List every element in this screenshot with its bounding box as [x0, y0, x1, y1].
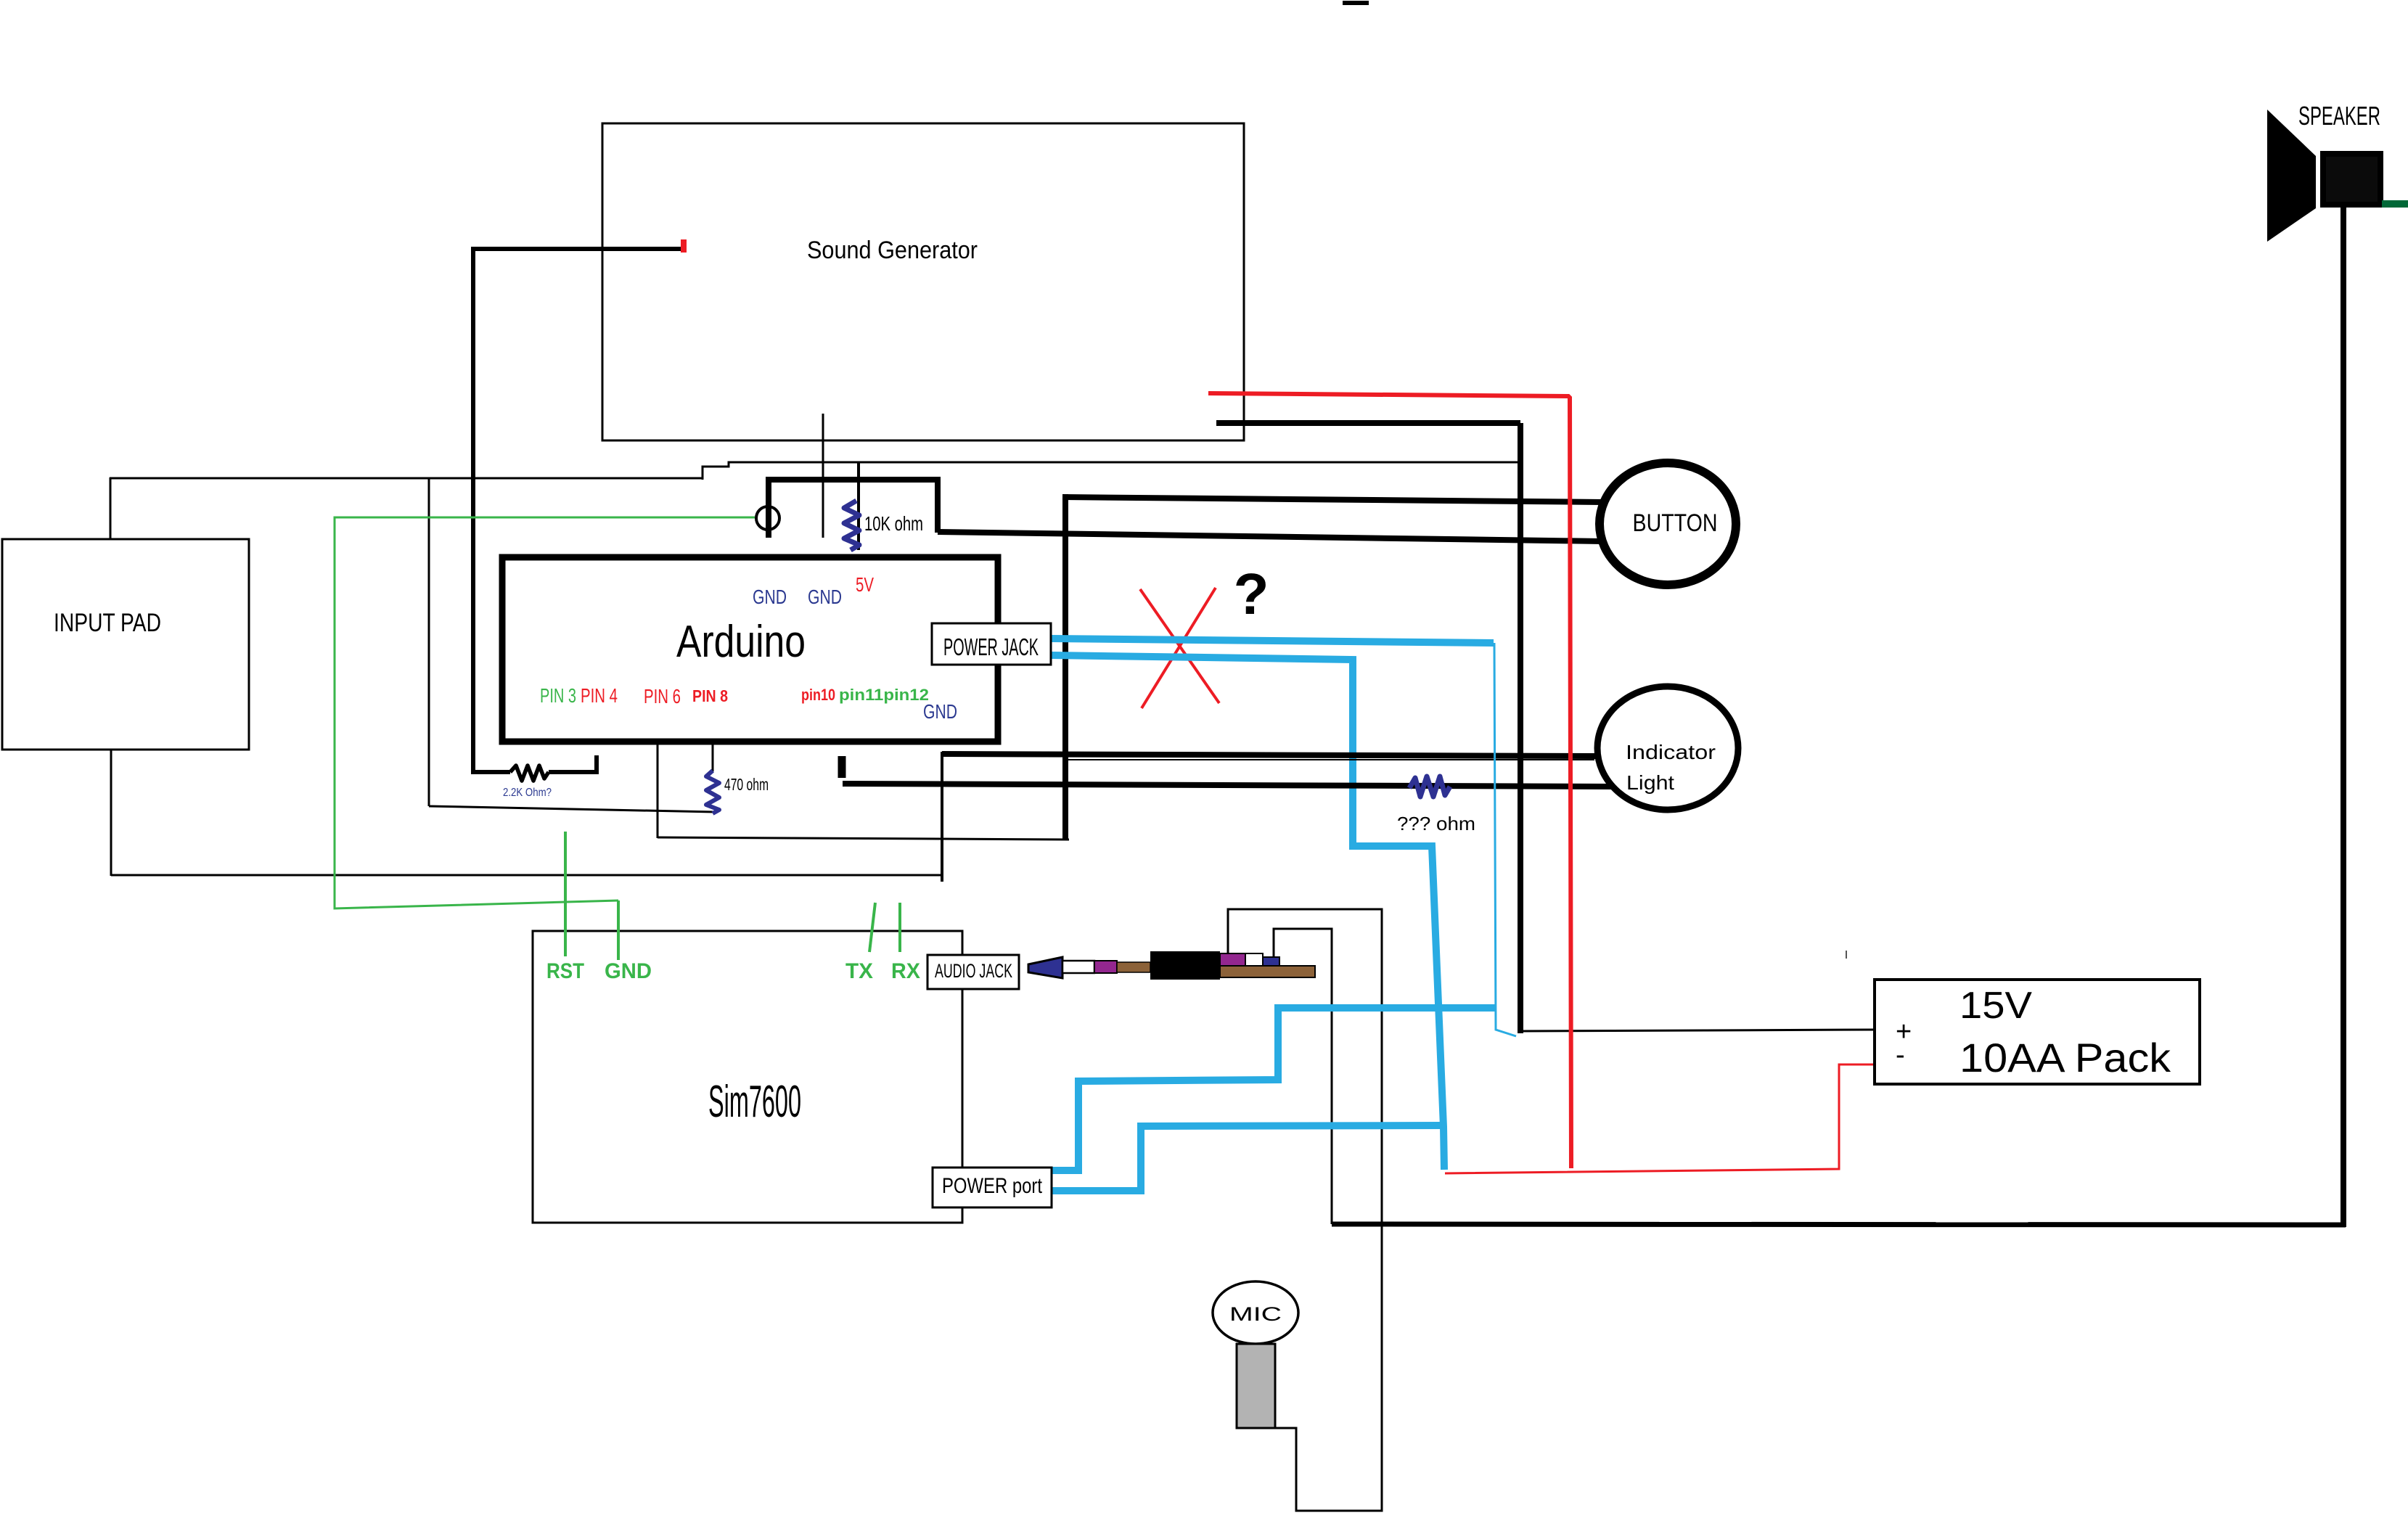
cap right drop: [935, 477, 941, 533]
audio plug: magenta segment: [1094, 961, 1117, 973]
sound generator box U1: [602, 123, 1244, 440]
red wire: 5V rail: [1208, 393, 1571, 1168]
audio plug: white segment: [1062, 961, 1094, 973]
audio plug: brown segment: [1117, 962, 1150, 972]
svg-text:GND: GND: [923, 700, 957, 723]
wire: GND stub below arduino: [838, 756, 846, 778]
green wire: GND stub: [617, 900, 620, 960]
wire: 2.2K branch right segment: [549, 770, 597, 774]
svg-text:GND: GND: [605, 959, 652, 983]
wire: pin3 drop below arduino: [657, 744, 659, 838]
audio plug: white contact: [1245, 953, 1263, 966]
wire: speaker bottom return: [1332, 1224, 2346, 1225]
svg-text:RX: RX: [891, 959, 920, 983]
svg-text:PIN 8: PIN 8: [692, 686, 728, 705]
resistor R3 470 ohm (vertical): [706, 771, 719, 813]
battery pack BT1: [1875, 980, 2200, 1084]
svg-text:POWER JACK: POWER JACK: [943, 633, 1039, 660]
svg-text:5V: 5V: [856, 573, 874, 596]
svg-text:??? ohm: ??? ohm: [1397, 813, 1475, 834]
svg-text:GND: GND: [808, 586, 842, 608]
green wire: pad sense loop: [335, 517, 755, 908]
wire: run to 470ohm resistor bottom: [429, 806, 715, 812]
power jack port box: [932, 623, 1051, 665]
svg-text:pin10: pin10: [801, 686, 835, 704]
wire: thick power top run: [1216, 420, 1520, 426]
svg-text:2.2K Ohm?: 2.2K Ohm?: [503, 787, 552, 799]
svg-text:AUDIO JACK: AUDIO JACK: [935, 960, 1012, 982]
wire: thick power rail drop x2095: [1518, 423, 1523, 1033]
svg-text:PIN 4: PIN 4: [581, 684, 618, 707]
red X mark: [1140, 589, 1219, 703]
wire: lower button feed: [938, 532, 1602, 541]
dark green speaker lead: [2382, 200, 2408, 208]
svg-text:PIN 3: PIN 3: [540, 684, 576, 707]
wire: indicator hairline: [1065, 759, 1594, 760]
resistor R2 10K (vertical): [844, 501, 859, 550]
wire: thick vertical x652: [471, 247, 475, 772]
cyan wire: power jack upper: [1052, 639, 1494, 643]
arduino board U2: [502, 557, 998, 742]
svg-text:Arduino: Arduino: [676, 617, 806, 667]
svg-text:15V: 15V: [1959, 985, 2032, 1027]
mic body (gray): [1237, 1344, 1275, 1428]
mic wire 1 (tip): [1228, 909, 1382, 1511]
microphone MIC1: [1213, 1281, 1298, 1344]
svg-text:10AA Pack: 10AA Pack: [1959, 1035, 2171, 1080]
input pad box: [2, 539, 249, 750]
wire: 470 resistor top lead: [712, 744, 714, 771]
wire: sound generator output drop: [822, 414, 824, 538]
svg-text:Sound Generator: Sound Generator: [807, 237, 978, 264]
speaker LS1 box: [2323, 154, 2380, 205]
mic wire 2 (ring to return): [1274, 929, 1332, 1224]
svg-text:SPEAKER: SPEAKER: [2298, 101, 2380, 131]
speaker LS1 horn: [2267, 110, 2316, 242]
svg-text:?: ?: [1234, 562, 1269, 626]
svg-text:RST: RST: [546, 959, 584, 983]
svg-text:pin11pin12: pin11pin12: [839, 686, 929, 704]
wire: thick box left rail: [1062, 494, 1068, 840]
power port box: [933, 1168, 1052, 1207]
green wire: TX stub: [869, 903, 875, 952]
green wire: RST stub: [564, 832, 567, 956]
wire: 10K resistor lead: [857, 462, 860, 550]
sim7600 module U3: [533, 931, 962, 1223]
button switch S1: [1600, 463, 1736, 585]
cyan wire: power port lower: [1052, 1125, 1442, 1191]
wire: 2.2K terminal up tick: [594, 755, 599, 774]
wire: junction drop at x591: [428, 478, 430, 806]
wire: input pad bottom riser: [110, 750, 112, 876]
resistor R4 ??? ohm (on lower indicator feed): [1409, 776, 1450, 797]
wire: upper button feed: [1062, 497, 1602, 502]
audio plug: black body: [1150, 951, 1220, 980]
svg-text:Indicator: Indicator: [1626, 741, 1716, 763]
resistor R1 2.2K: [510, 766, 549, 781]
audio plug: purple contact: [1220, 953, 1245, 966]
green wire: RX stub: [898, 903, 901, 952]
cyan wire: power jack lower long run: [1052, 655, 1444, 1170]
cyan wire: thin drop to battery junction: [1494, 643, 1516, 1036]
wire: lower indicator feed: [843, 784, 1612, 787]
wire: thick feed into sound generator: [471, 247, 683, 251]
svg-text:Sim7600: Sim7600: [708, 1077, 801, 1127]
node: circle junction on cap: [756, 506, 779, 530]
wire: 2.2K branch left segment: [471, 770, 510, 774]
svg-text:MIC: MIC: [1229, 1303, 1282, 1325]
svg-text:-: -: [1896, 1040, 1905, 1070]
wire: pin3 run to relay box foot: [658, 837, 1069, 840]
svg-text:BUTTON: BUTTON: [1633, 509, 1718, 537]
red terminal tick: [681, 239, 687, 253]
wire: input pad bottom run: [111, 874, 942, 877]
svg-text:10K ohm: 10K ohm: [864, 512, 923, 535]
svg-text:PIN 6: PIN 6: [644, 685, 681, 707]
tiny stray tick: [1846, 951, 1847, 959]
cap top run: [766, 477, 941, 483]
wire: upper indicator feed: [942, 754, 1597, 756]
svg-text:INPUT PAD: INPUT PAD: [54, 609, 161, 637]
indicator light DS1: [1597, 686, 1738, 810]
thick cap wire over arduino: [766, 483, 771, 538]
audio plug: arrow tip: [1028, 957, 1062, 978]
svg-text:Light: Light: [1626, 771, 1674, 794]
wire: battery plus lead: [1520, 1030, 1875, 1031]
svg-text:GND: GND: [753, 586, 787, 608]
svg-text:POWER port: POWER port: [942, 1174, 1043, 1198]
cyan wire: power port upper: [1052, 1008, 1495, 1170]
wire: input pad top riser: [110, 477, 112, 539]
svg-text:TX: TX: [845, 959, 873, 983]
top margin dash mark: [1343, 1, 1369, 5]
audio jack box: [927, 955, 1019, 989]
wire: input pad top run to step: [110, 477, 703, 480]
red wire: battery minus run: [1445, 1064, 1875, 1173]
audio plug: brown board: [1220, 966, 1315, 977]
wire: step up at x968: [703, 462, 1521, 480]
wire: speaker drop: [2341, 205, 2346, 1227]
audio plug: blue contact: [1263, 957, 1279, 968]
svg-text:470 ohm: 470 ohm: [724, 775, 769, 794]
wire: riser to indicator feed at x1298: [941, 752, 943, 882]
